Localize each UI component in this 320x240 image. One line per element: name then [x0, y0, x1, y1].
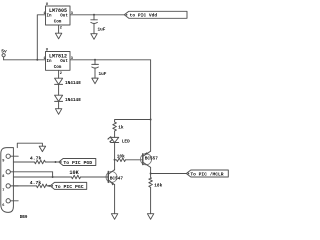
- transistor Q1 BC547: [106, 170, 123, 186]
- wire DB9 shield to ground: [17, 143, 42, 147]
- capacitor C1 1uF: [91, 15, 106, 33]
- ground below R6: [147, 214, 153, 220]
- wire pin9 row to R1: [13, 161, 33, 163]
- voltage regulator U2 LM7812: [43, 48, 73, 76]
- voltage regulator U1 LM7805: [43, 3, 73, 31]
- ground below C2: [92, 78, 98, 84]
- svg-text:1uF: 1uF: [99, 72, 107, 77]
- ground below U1: [55, 33, 61, 39]
- svg-text:1k: 1k: [118, 126, 124, 131]
- wire R4 to LED: [114, 131, 116, 137]
- wire Q2 emitter up to 12v rail: [150, 120, 152, 152]
- svg-text:2: 2: [60, 27, 62, 31]
- svg-text:In: In: [47, 14, 53, 18]
- wire 5v to U2 input: [4, 59, 46, 61]
- connector pin 9: [2, 154, 18, 163]
- node junction pin8 jog: [52, 176, 54, 178]
- wire C2 to ground: [94, 68, 96, 78]
- diode D1 1N4148: [55, 78, 82, 86]
- net flag To PIC PGC: [50, 182, 86, 190]
- svg-text:1N4148: 1N4148: [65, 81, 81, 86]
- node junction at 5v rail: [36, 59, 38, 61]
- diode D2 1N4148: [55, 95, 82, 103]
- wire C1 to ground: [93, 23, 95, 33]
- svg-text:U: U: [46, 48, 48, 52]
- svg-text:1uF: 1uF: [98, 28, 106, 33]
- node junction C1 tap: [93, 14, 95, 16]
- svg-text:BC547: BC547: [110, 177, 124, 182]
- wire R3 to PGC flag: [47, 185, 50, 187]
- connector J1 DB9 shell: [1, 148, 28, 220]
- svg-text:4.7k: 4.7k: [30, 155, 42, 161]
- power terminal 5v: [1, 49, 7, 60]
- wire pin8 jog down: [52, 172, 54, 177]
- svg-text:Com: Com: [54, 21, 62, 25]
- wire to MCLR flag: [151, 173, 187, 175]
- wire U1 output to PIC Vdd: [70, 14, 124, 16]
- wire R2 to Q1 base: [81, 176, 109, 178]
- node junction at 12v branch: [150, 119, 152, 121]
- svg-text:Out: Out: [60, 60, 68, 64]
- ground below C1: [91, 34, 97, 40]
- svg-text:8: 8: [2, 175, 4, 179]
- transistor Q2 BC557: [140, 151, 158, 167]
- net flag To PIC PGD: [59, 159, 96, 167]
- resistor R5 10k to Q2 base: [115, 155, 126, 162]
- wire R6 to ground: [150, 187, 152, 213]
- resistor R6 18k: [149, 177, 163, 188]
- net flag to PIC Vdd: [124, 11, 187, 18]
- wire U1 Com pin 2: [58, 25, 60, 33]
- svg-text:18k: 18k: [154, 183, 162, 188]
- node junction at PGD flag: [55, 161, 57, 163]
- svg-text:to PIC Vdd: to PIC Vdd: [130, 13, 158, 19]
- node junction MCLR branch: [150, 173, 152, 175]
- ground at DB9 shield: [39, 146, 45, 151]
- svg-text:10K: 10K: [69, 170, 79, 176]
- resistor R3 4.7k: [30, 180, 47, 188]
- node junction at PGC flag: [48, 185, 50, 187]
- connector pin 8: [2, 170, 52, 179]
- wire pin7 row to R3: [13, 185, 36, 187]
- svg-text:To PIC /MCLR: To PIC /MCLR: [190, 172, 223, 178]
- wire R1 to PGD flag: [47, 161, 59, 163]
- ground below Q1: [111, 214, 117, 220]
- svg-text:10k: 10k: [117, 155, 125, 160]
- svg-text:In: In: [47, 60, 53, 64]
- capacitor C2 1uF: [92, 60, 107, 77]
- svg-text:LED: LED: [122, 140, 130, 145]
- svg-text:2: 2: [60, 72, 62, 76]
- node junction R5 tap: [114, 159, 116, 161]
- svg-text:1N4148: 1N4148: [65, 98, 81, 103]
- ground below D2: [55, 109, 61, 115]
- wire branch to LED chain: [115, 120, 151, 123]
- wire R5 to Q2 base: [126, 159, 143, 161]
- svg-text:DB9: DB9: [20, 216, 28, 220]
- wire D1 to D2: [58, 84, 60, 95]
- svg-text:Com: Com: [54, 66, 62, 70]
- svg-text:4.7k: 4.7k: [30, 180, 42, 186]
- wire U2 output rail: [70, 59, 151, 61]
- connector pin 6: [2, 199, 18, 208]
- svg-text:U: U: [46, 3, 48, 7]
- svg-text:1: 1: [43, 57, 45, 61]
- connector pin 7: [2, 184, 18, 193]
- svg-text:9: 9: [2, 159, 4, 163]
- svg-text:To PIC PGD: To PIC PGD: [63, 160, 92, 166]
- net flag To PIC /MCLR: [186, 170, 228, 178]
- LED D3: [107, 137, 130, 145]
- wire U1 input from 5v rail: [37, 15, 45, 60]
- wire Q2 collector down: [150, 167, 152, 177]
- svg-text:LM7805: LM7805: [49, 8, 67, 14]
- svg-text:3: 3: [71, 57, 73, 61]
- resistor R1 4.7k: [30, 155, 47, 164]
- svg-text:BC557: BC557: [145, 156, 159, 161]
- wire pin8 row to R2: [13, 176, 71, 178]
- wire LED to Q1 collector: [114, 143, 116, 171]
- svg-text:LM7812: LM7812: [49, 54, 67, 60]
- wire 12v rail down right side: [150, 60, 152, 120]
- wire D2 to ground: [58, 101, 60, 108]
- wire U2 Com pin 2: [58, 70, 60, 78]
- svg-text:7: 7: [2, 189, 4, 193]
- node junction C2 tap: [94, 59, 96, 61]
- svg-text:To PIC PGC: To PIC PGC: [55, 184, 84, 190]
- resistor R4 1k: [113, 122, 124, 131]
- svg-text:6: 6: [2, 204, 4, 208]
- wire Q1 emitter to ground: [114, 185, 116, 214]
- resistor R2 10K: [69, 170, 80, 179]
- svg-text:Out: Out: [60, 14, 68, 18]
